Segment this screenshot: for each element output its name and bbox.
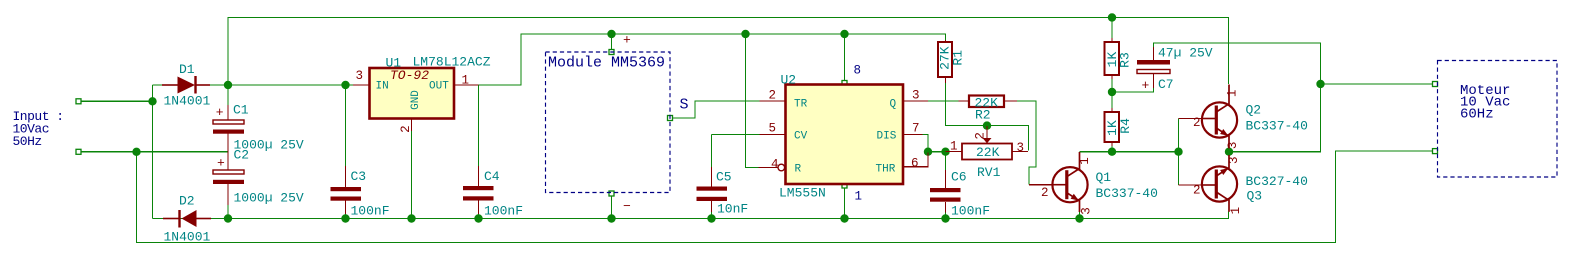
- svg-text:R1: R1: [951, 50, 966, 66]
- svg-text:THR: THR: [876, 164, 896, 176]
- svg-text:Q1: Q1: [1096, 170, 1112, 185]
- svg-text:+: +: [623, 33, 631, 48]
- svg-text:1N4001: 1N4001: [164, 230, 211, 245]
- svg-text:2: 2: [974, 132, 988, 140]
- svg-text:Q2: Q2: [1246, 103, 1262, 118]
- svg-text:GND: GND: [410, 90, 422, 110]
- svg-text:Q3: Q3: [1247, 189, 1263, 204]
- svg-text:3: 3: [1227, 156, 1241, 164]
- svg-text:−: −: [623, 199, 631, 214]
- svg-text:Module MM5369: Module MM5369: [548, 55, 665, 72]
- svg-text:OUT: OUT: [429, 81, 449, 93]
- svg-text:100nF: 100nF: [351, 204, 390, 219]
- svg-text:IN: IN: [376, 81, 389, 93]
- svg-text:2: 2: [1193, 116, 1201, 130]
- svg-text:1: 1: [1078, 157, 1092, 165]
- svg-text:1000µ 25V: 1000µ 25V: [234, 191, 304, 206]
- svg-text:3: 3: [1080, 207, 1094, 215]
- svg-text:C5: C5: [716, 170, 732, 185]
- svg-text:DIS: DIS: [877, 131, 897, 143]
- svg-text:R4: R4: [1118, 118, 1133, 134]
- svg-text:LM555N: LM555N: [779, 186, 826, 201]
- svg-text:BC337-40: BC337-40: [1246, 119, 1308, 134]
- svg-text:2: 2: [1193, 184, 1201, 198]
- svg-text:U2: U2: [781, 73, 797, 88]
- svg-text:3: 3: [1226, 142, 1240, 150]
- svg-text:BC337-40: BC337-40: [1096, 186, 1158, 201]
- svg-text:60Hz: 60Hz: [1460, 107, 1494, 123]
- svg-text:+: +: [217, 156, 225, 171]
- svg-text:CV: CV: [794, 131, 808, 143]
- svg-text:D1: D1: [179, 62, 195, 77]
- svg-text:1: 1: [1226, 90, 1240, 98]
- svg-text:50Hz: 50Hz: [13, 134, 42, 149]
- svg-text:+: +: [1142, 78, 1150, 93]
- svg-text:100nF: 100nF: [951, 204, 990, 219]
- svg-text:BC327-40: BC327-40: [1246, 174, 1308, 189]
- svg-text:3: 3: [356, 69, 364, 83]
- svg-text:22K: 22K: [976, 145, 1000, 160]
- svg-text:R3: R3: [1118, 52, 1133, 68]
- svg-text:5: 5: [769, 122, 777, 136]
- svg-text:4: 4: [771, 158, 779, 172]
- svg-text:1: 1: [1229, 207, 1243, 215]
- svg-text:C7: C7: [1158, 77, 1174, 92]
- svg-text:2: 2: [399, 125, 413, 133]
- svg-text:+: +: [216, 105, 224, 120]
- svg-text:S: S: [680, 97, 689, 114]
- svg-text:3: 3: [1017, 141, 1025, 155]
- svg-text:2: 2: [769, 89, 777, 103]
- svg-text:10nF: 10nF: [717, 202, 748, 217]
- svg-text:TO-92: TO-92: [390, 68, 429, 83]
- svg-text:1: 1: [855, 190, 863, 204]
- svg-text:D2: D2: [179, 194, 195, 209]
- svg-text:C4: C4: [484, 169, 500, 184]
- svg-text:8: 8: [854, 64, 862, 78]
- svg-text:1: 1: [950, 140, 958, 154]
- svg-text:C6: C6: [951, 170, 967, 185]
- svg-text:47µ 25V: 47µ 25V: [1158, 46, 1213, 61]
- svg-text:R2: R2: [975, 108, 991, 123]
- svg-text:2: 2: [1041, 186, 1049, 200]
- svg-text:3: 3: [912, 89, 920, 103]
- svg-text:6: 6: [911, 157, 919, 171]
- svg-text:C1: C1: [233, 103, 249, 118]
- svg-text:1N4001: 1N4001: [164, 94, 211, 109]
- svg-text:RV1: RV1: [977, 165, 1001, 180]
- svg-text:1: 1: [462, 74, 470, 88]
- svg-text:7: 7: [912, 122, 920, 136]
- svg-text:100nF: 100nF: [484, 204, 523, 219]
- svg-text:C3: C3: [351, 169, 367, 184]
- svg-text:C2: C2: [234, 148, 250, 163]
- svg-text:TR: TR: [794, 99, 808, 111]
- svg-text:R: R: [795, 164, 802, 176]
- svg-text:Q: Q: [890, 99, 897, 111]
